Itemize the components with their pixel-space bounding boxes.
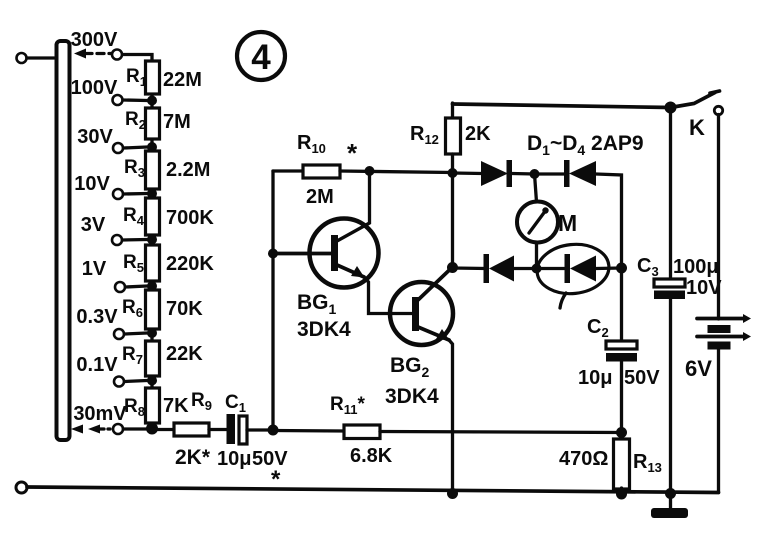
- svg-text:220K: 220K: [166, 253, 214, 275]
- resistor R1: [126, 61, 202, 94]
- wire battery to bus: [717, 350, 720, 493]
- wire bottom node to D4: [537, 267, 567, 270]
- svg-text:2K*: 2K*: [175, 446, 211, 469]
- diode D1: [481, 160, 512, 187]
- resistor R7: [122, 341, 203, 376]
- svg-text:10μ: 10μ: [217, 448, 251, 470]
- node 3V: [81, 214, 157, 245]
- wire meter to bottom node: [535, 243, 538, 269]
- svg-text:70K: 70K: [166, 298, 203, 320]
- transistor BG2: [385, 268, 453, 409]
- svg-text:4: 4: [251, 38, 271, 77]
- svg-text:3V: 3V: [81, 214, 106, 236]
- wire node A to R11: [273, 429, 344, 433]
- resistor R6: [122, 290, 203, 329]
- svg-text:22K: 22K: [166, 343, 203, 365]
- node bridge right: [616, 263, 627, 274]
- svg-text:6.8K: 6.8K: [350, 445, 393, 467]
- switch K: [671, 91, 723, 140]
- svg-text:K: K: [689, 115, 705, 140]
- capacitor C2: [578, 316, 660, 389]
- svg-text:M: M: [558, 210, 577, 236]
- resistor R9: [174, 390, 212, 469]
- wire BG2 emitter to ground bus: [449, 340, 453, 494]
- node R13 bottom on bus: [616, 489, 627, 500]
- node BG1 collector junction: [365, 166, 375, 176]
- transistor BG1: [273, 219, 379, 342]
- node 30mV: [73, 403, 158, 435]
- node 1V: [82, 258, 157, 292]
- figure number 4: [237, 32, 285, 80]
- svg-text:7M: 7M: [163, 111, 191, 133]
- battery 6V: [685, 314, 751, 381]
- wire R11 to node C2/R13: [380, 432, 622, 433]
- resistor R13: [559, 439, 662, 489]
- resistor R4: [123, 198, 214, 235]
- input terminal top-left: [17, 53, 55, 63]
- resistor R3: [124, 151, 210, 189]
- resistor R2: [125, 108, 191, 139]
- wiper arrow 30mV: [71, 425, 110, 434]
- top supply bus: [453, 104, 671, 108]
- node 0.1V: [76, 354, 157, 387]
- svg-text:10μ: 10μ: [578, 367, 612, 389]
- svg-text:0.1V: 0.1V: [76, 354, 118, 376]
- svg-text:700K: 700K: [166, 207, 214, 229]
- svg-text:30mV: 30mV: [73, 403, 127, 425]
- wire R10 left lead: [273, 169, 303, 172]
- wire main vertical to BG2 collector node: [451, 173, 454, 268]
- resistor R8: [124, 388, 189, 423]
- resistor R10: [297, 132, 358, 208]
- wire bus corner to R12: [451, 103, 454, 119]
- node C3 bottom on bus: [665, 488, 676, 499]
- node bridge top: [530, 169, 540, 179]
- wire BG1 collector: [337, 171, 370, 241]
- wire D2 to right corner: [596, 174, 622, 268]
- bottom terminal: [16, 482, 27, 493]
- svg-text:100μ: 100μ: [673, 256, 719, 278]
- node 300V: [71, 29, 152, 62]
- diode D4 (selected, circled): [535, 241, 612, 308]
- wire R13 to bus: [620, 488, 623, 494]
- svg-text:470Ω: 470Ω: [559, 448, 608, 470]
- ground bus wire: [27, 487, 719, 493]
- diode D2: [564, 160, 596, 187]
- svg-text:3DK4: 3DK4: [385, 385, 439, 408]
- resistor chain vertical wire: [150, 60, 153, 429]
- svg-text:0.3V: 0.3V: [76, 306, 118, 328]
- wire top node to meter: [535, 174, 537, 202]
- svg-text:6V: 6V: [685, 356, 712, 381]
- wire bridge left to D3: [453, 266, 487, 270]
- svg-text:50V: 50V: [624, 367, 660, 389]
- resistor R5: [123, 245, 214, 281]
- svg-text:7K: 7K: [163, 395, 189, 417]
- wire BG1 emitter to BG2 base: [364, 277, 412, 314]
- meter M: [517, 202, 577, 243]
- wire to D1: [453, 171, 483, 175]
- resistor R11: [330, 394, 393, 467]
- ground: [651, 494, 688, 519]
- wire switch to battery: [717, 115, 720, 320]
- resistor R12: [410, 118, 491, 154]
- node A junction: [268, 425, 279, 436]
- wire D4 to right node: [596, 266, 622, 270]
- svg-text:2M: 2M: [306, 186, 334, 208]
- node bridge bottom: [532, 264, 542, 274]
- wire R10 to R12 node: [340, 171, 453, 173]
- svg-text:30V: 30V: [77, 126, 113, 148]
- wire C2 to R13 node: [620, 361, 623, 433]
- node BG1 base junction: [268, 249, 278, 259]
- svg-text:2K: 2K: [465, 123, 491, 145]
- selector bar: [57, 41, 70, 440]
- node BG2 collector / bridge left: [447, 262, 458, 273]
- wire C1 to node A: [247, 428, 273, 431]
- node 30V: [77, 126, 157, 153]
- svg-text:10V: 10V: [686, 277, 722, 299]
- wire R12 to diode row: [451, 154, 454, 173]
- node 0.3V: [76, 306, 157, 339]
- wire top node to D2: [535, 172, 567, 175]
- node R13 top: [616, 427, 627, 438]
- wire D1 to top node: [512, 172, 535, 176]
- svg-text:22M: 22M: [163, 69, 202, 91]
- svg-text:*: *: [347, 138, 358, 168]
- wire R9 to C1: [209, 428, 227, 431]
- wiper arrow 300V: [74, 49, 112, 59]
- node 100V: [71, 77, 157, 106]
- node 10V: [74, 173, 157, 199]
- diode D3: [484, 254, 515, 283]
- svg-text:2.2M: 2.2M: [166, 159, 210, 181]
- node R12/diode junction: [448, 168, 458, 178]
- svg-text:10V: 10V: [74, 173, 110, 195]
- left feedback vertical wire: [271, 171, 274, 430]
- wire 30mV node to R9: [152, 428, 174, 431]
- svg-text:300V: 300V: [71, 29, 118, 51]
- wire D3 to bottom node: [514, 267, 537, 270]
- node top bus right: [665, 102, 677, 114]
- wire right node down to C2: [620, 268, 623, 342]
- capacitor C3: [637, 108, 722, 494]
- svg-text:1V: 1V: [82, 258, 107, 280]
- capacitor C1: [217, 392, 288, 493]
- svg-text:3DK4: 3DK4: [297, 318, 351, 341]
- svg-text:100V: 100V: [71, 77, 118, 99]
- node BG2 emitter on bus: [447, 488, 458, 499]
